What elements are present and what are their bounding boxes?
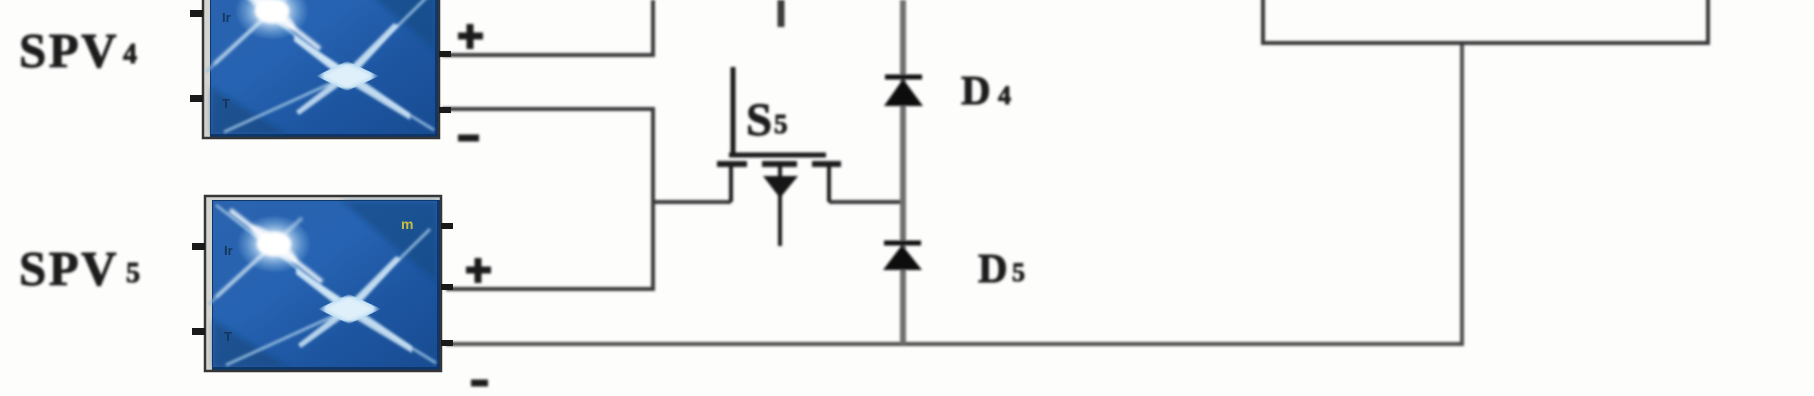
svg-text:SPV: SPV	[19, 23, 119, 78]
svg-text:SPV: SPV	[19, 241, 119, 296]
svg-text:5: 5	[126, 258, 140, 289]
svg-text:4: 4	[998, 81, 1011, 110]
svg-text:4: 4	[123, 39, 137, 70]
svg-text:D: D	[978, 245, 1008, 291]
svg-text:D: D	[961, 67, 991, 113]
svg-text:5: 5	[774, 109, 788, 139]
svg-text:5: 5	[1012, 258, 1025, 287]
svg-text:S: S	[746, 94, 772, 146]
